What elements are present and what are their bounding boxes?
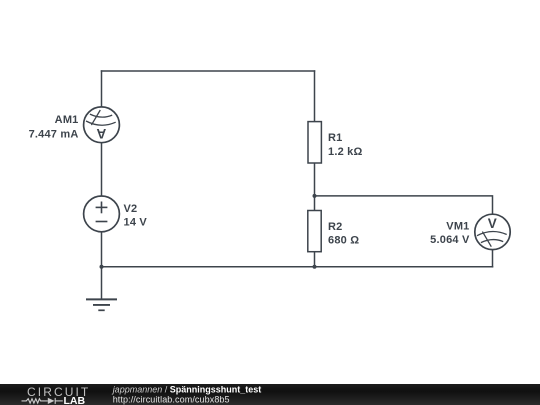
wire R2 bottom to bottom rail [314,252,316,267]
wire top rail [102,70,315,72]
ground [86,267,117,311]
logo diode triangle [48,398,55,404]
resistor R1 [308,122,321,163]
logo resistor zigzag and diode [22,398,63,404]
svg-text:VM1: VM1 [446,220,469,232]
svg-text:680 Ω: 680 Ω [328,235,359,247]
node junction at ground [100,265,104,269]
svg-text:LAB: LAB [64,395,86,405]
voltage source V2 [84,196,120,232]
svg-text:R2: R2 [328,221,342,233]
svg-text:5.064 V: 5.064 V [430,234,470,246]
wire bottom rail [102,266,493,268]
svg-text:V: V [488,216,497,231]
node junction at R1/R2/VM1 [313,194,317,198]
node junction at R2 bottom rail [313,265,317,269]
wire node to VM1 top [315,196,493,214]
wire VM1 bottom to bottom rail [492,250,494,267]
ammeter AM1 [84,107,120,143]
svg-text:AM1: AM1 [55,114,79,126]
svg-text:R1: R1 [328,132,342,144]
svg-text:http://circuitlab.com/cubx8b5: http://circuitlab.com/cubx8b5 [113,394,230,404]
resistor R2 [308,211,321,252]
wire R1 bottom to node [314,163,316,196]
wire AM1 bottom to V2 top [101,143,103,196]
wire AM1 top to top-left corner [101,71,103,107]
wire top rail down to R1 [314,71,316,122]
svg-text:A: A [96,126,106,141]
svg-text:14 V: 14 V [124,217,148,229]
wire V2 bottom to ground node [101,232,103,267]
svg-text:jappmannen / Spänningsshunt_te: jappmannen / Spänningsshunt_test [112,385,262,395]
svg-text:7.447 mA: 7.447 mA [29,128,79,140]
voltmeter VM1 [475,214,510,249]
wire node to R2 top [314,196,316,211]
svg-text:V2: V2 [124,203,138,215]
svg-text:1.2 kΩ: 1.2 kΩ [328,146,363,158]
